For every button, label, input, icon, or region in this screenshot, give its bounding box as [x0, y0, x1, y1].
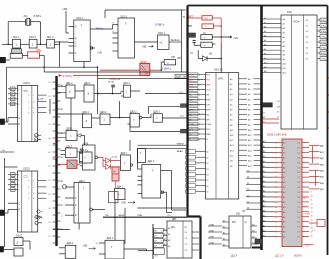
svg-text:А3: А3 — [61, 108, 63, 111]
wire DD2 to DD3 — [95, 28, 113, 30]
svg-text:3: 3 — [18, 190, 19, 192]
svg-text:D4: D4 — [298, 162, 300, 164]
svg-text:А5: А5 — [283, 166, 285, 169]
wire WRITE rail 1 — [138, 144, 187, 146]
svg-text:R: R — [75, 38, 77, 41]
svg-text:D2: D2 — [11, 99, 13, 101]
svg-text:02: 02 — [49, 96, 51, 98]
dark label on bus — [262, 103, 272, 107]
wire oscillator loop — [8, 21, 26, 23]
svg-text:READ: READ — [177, 150, 183, 153]
svg-text:А0: А0 — [61, 84, 63, 87]
svg-text:NMI: NMI — [189, 99, 193, 101]
svg-text:ДС4Б: ДС4Б — [112, 157, 118, 159]
pin bubble DD2.1 output — [90, 28, 95, 30]
svg-text:А4: А4 — [263, 160, 265, 163]
svg-text:A0: A0 — [223, 220, 225, 223]
svg-text:A11: A11 — [264, 66, 267, 69]
pin bubble DD11 out — [92, 209, 105, 211]
svg-text:А9: А9 — [263, 234, 265, 237]
svg-text:ДД4.2: ДД4.2 — [100, 111, 107, 114]
svg-text:D51: D51 — [236, 213, 241, 216]
svg-text:ПС: ПС — [168, 215, 172, 217]
svg-text:2: 2 — [199, 89, 200, 91]
svg-text:Q: Q — [185, 225, 187, 229]
svg-text:16: 16 — [275, 222, 277, 224]
svg-text:+5В: +5В — [142, 45, 147, 49]
wires D51 left labels — [208, 225, 222, 227]
svg-text:БУС: БУС — [206, 129, 211, 131]
svg-text:02: 02 — [49, 166, 51, 168]
svg-text:А0: А0 — [283, 191, 285, 194]
wire into MS column — [124, 248, 147, 250]
svg-text:РСТ1: РСТ1 — [189, 75, 195, 77]
svg-text:W3: W3 — [252, 243, 255, 245]
svg-text:10: 10 — [275, 143, 277, 145]
svg-text:+5В: +5В — [177, 57, 182, 60]
svg-text:A2: A2 — [264, 26, 266, 29]
svg-text:WАТ: WАТ — [206, 84, 211, 87]
svg-text:D5: D5 — [298, 167, 300, 169]
crystal ZQ1 — [25, 19, 27, 26]
wire red box to gates — [22, 55, 27, 57]
wires MS chip left — [163, 229, 167, 231]
svg-text:2: 2 — [199, 124, 200, 126]
svg-text:А6: А6 — [263, 219, 265, 222]
svg-text:ДД1.4: ДД1.4 — [123, 82, 130, 85]
svg-text:БУС: БУС — [189, 129, 194, 131]
svg-text:1: 1 — [18, 180, 19, 182]
svg-text:D0: D0 — [298, 182, 300, 184]
svg-text:2: 2 — [199, 119, 200, 121]
bus: heavy jog at y=217 — [188, 215, 201, 217]
svg-text:A3: A3 — [264, 30, 266, 33]
svg-text:А6: А6 — [61, 132, 63, 135]
svg-text:1WA2: 1WA2 — [209, 236, 214, 239]
svg-text:Д5: Д5 — [247, 202, 249, 204]
svg-text:А6: А6 — [283, 171, 285, 174]
svg-text:А7: А7 — [283, 226, 285, 229]
svg-text:OE: OE — [277, 107, 281, 109]
svg-text:А2: А2 — [164, 238, 166, 241]
svg-text:Д4: Д4 — [247, 195, 249, 197]
svg-text:2: 2 — [199, 134, 200, 136]
svg-text:D0: D0 — [298, 143, 300, 145]
svg-text:А8: А8 — [283, 181, 285, 184]
svg-text:А4: А4 — [263, 210, 265, 213]
wire sheet border y=217 left part — [103, 216, 188, 218]
svg-text:VД: VД — [209, 54, 213, 56]
svg-text:T: T — [81, 24, 83, 28]
circle input symbol — [62, 185, 66, 189]
svg-text:А2: А2 — [283, 151, 285, 154]
svg-text:А9: А9 — [283, 186, 285, 189]
svg-text:ДА: ДА — [213, 43, 217, 46]
wire left edge to counter upper — [0, 121, 8, 123]
svg-text:А9: А9 — [283, 236, 285, 239]
svg-text:17: 17 — [275, 177, 277, 179]
red component K1 gray — [67, 160, 77, 169]
svg-text:4: 4 — [28, 187, 29, 189]
svg-text:D2: D2 — [298, 192, 300, 194]
svg-text:D7: D7 — [298, 177, 300, 179]
svg-text:1WA1: 1WA1 — [209, 230, 214, 233]
svg-text:А8: А8 — [283, 231, 285, 234]
svg-text:08: 08 — [49, 138, 51, 140]
wire row y114 — [57, 113, 84, 115]
diode VD8 — [203, 56, 208, 61]
svg-text:D6: D6 — [298, 212, 300, 214]
svg-text:Д2: Д2 — [247, 183, 249, 185]
wire x=181 vertical — [181, 10, 183, 72]
svg-text:ЗОА: ЗОА — [53, 156, 58, 159]
svg-text:СТ2: СТ2 — [24, 177, 29, 179]
svg-text:А1: А1 — [61, 156, 63, 159]
wire DD11 bottom — [78, 223, 80, 230]
svg-text:+VБ: +VБ — [233, 36, 238, 40]
svg-text:ЗД02 2В: ЗД02 2В — [176, 75, 186, 79]
red wires diodes to gate — [110, 160, 120, 162]
svg-text:12: 12 — [275, 152, 277, 154]
svg-text:А4: А4 — [61, 180, 63, 183]
connector pad left edge top — [0, 57, 6, 63]
svg-text:19: 19 — [311, 232, 313, 234]
svg-text:15: 15 — [275, 167, 277, 169]
svg-text:ЗвкФскв: ЗвкФскв — [171, 39, 181, 42]
net label out — [169, 41, 182, 43]
svg-text:D0: D0 — [298, 222, 300, 224]
svg-text:D1: D1 — [11, 94, 13, 96]
red stub 2 — [263, 122, 279, 124]
wire gate DD1.4 out — [131, 90, 141, 92]
box T y148 — [138, 149, 146, 163]
svg-text:2: 2 — [199, 85, 200, 87]
svg-text:0,3В: 0,3В — [305, 214, 310, 216]
svg-text:10: 10 — [311, 196, 313, 198]
svg-text:13 ВД: 13 ВД — [321, 37, 327, 39]
svg-text:9: 9 — [311, 192, 312, 194]
svg-text:A8: A8 — [264, 52, 266, 55]
bus: right edge frame x=327 — [327, 6, 329, 256]
triangle mark — [77, 150, 83, 154]
red ticks right edge — [328, 77, 329, 79]
svg-text:2: 2 — [199, 99, 200, 101]
wire counter1 left pin rails — [8, 88, 11, 90]
svg-text:5: 5 — [28, 108, 29, 110]
wire left edge mid — [0, 151, 14, 153]
wire left vertical x=6 lower — [4, 158, 6, 247]
svg-text:CLC: CLC — [189, 90, 194, 92]
red tick on bus — [53, 143, 57, 145]
svg-text:1: 1 — [18, 94, 19, 96]
wire horizontal y=67 left section — [6, 66, 97, 68]
svg-text:04: 04 — [49, 110, 51, 112]
circle marks under counter2 — [35, 215, 38, 218]
red wire to diodes — [98, 156, 104, 158]
svg-text:+VБ: +VБ — [97, 51, 102, 55]
svg-text:А5: А5 — [283, 216, 285, 219]
svg-text:ПИБ: ПИБ — [138, 215, 143, 217]
circle-x marks under counter1 — [34, 134, 37, 137]
svg-text:WRITE: WRITE — [177, 144, 185, 146]
svg-text:A12: A12 — [264, 70, 267, 73]
CPU left pins — [189, 74, 206, 76]
svg-text:11: 11 — [275, 147, 277, 149]
capacitor C1 left — [193, 39, 196, 41]
svg-text:WАТ: WАТ — [206, 133, 211, 136]
wire into frame y93 — [145, 93, 186, 95]
wire DD4.1 down to trigger A — [114, 200, 116, 241]
svg-text:14: 14 — [275, 212, 277, 214]
bus: address bus x=261 — [260, 6, 263, 251]
svg-text:Д21,4: Д21,4 — [231, 256, 238, 258]
svg-text:2: 2 — [18, 185, 19, 187]
svg-text:А3: А3 — [283, 206, 285, 209]
svg-text:D1: D1 — [298, 227, 300, 229]
svg-text:1: 1 — [161, 246, 162, 248]
resistor R1 highlighted red — [28, 52, 40, 58]
svg-text:D2: D2 — [298, 232, 300, 234]
svg-text:11: 11 — [275, 197, 277, 199]
svg-text:D0: D0 — [11, 89, 13, 91]
svg-text:D2: D2 — [11, 185, 13, 187]
svg-text:12 ВД: 12 ВД — [321, 31, 327, 33]
svg-text:А1: А1 — [263, 195, 265, 198]
svg-text:ДД9.3: ДД9.3 — [153, 111, 160, 114]
svg-text:0: 0 — [18, 89, 19, 91]
svg-text:14: 14 — [275, 162, 277, 164]
svg-text:Q: Q — [245, 221, 247, 224]
svg-text:5: 5 — [28, 193, 29, 195]
svg-text:02: 02 — [49, 236, 51, 238]
svg-text:А1: А1 — [283, 146, 285, 149]
svg-text:DD1.1: DD1.1 — [13, 36, 20, 39]
svg-text:ДД2.1: ДД2.1 — [82, 111, 89, 114]
svg-text:18: 18 — [275, 182, 277, 184]
svg-text:A2: A2 — [223, 232, 225, 235]
svg-text:DD2.1: DD2.1 — [77, 17, 84, 20]
svg-text:&: & — [69, 90, 71, 94]
svg-text:DD10: DD10 — [24, 82, 31, 85]
wire into frame y131 — [130, 130, 186, 132]
svg-text:А2: А2 — [283, 201, 285, 204]
svg-text:А6: А6 — [283, 221, 285, 224]
svg-text:A7: A7 — [264, 48, 266, 51]
svg-text:D3: D3 — [298, 157, 300, 159]
svg-text:А3: А3 — [263, 155, 265, 158]
MS pin label column — [152, 224, 154, 259]
svg-text:CS: CS — [277, 101, 281, 103]
svg-text:0: 0 — [18, 175, 19, 177]
svg-text:Д22 1,8: Д22 1,8 — [275, 254, 284, 257]
red stub ROM select — [263, 118, 279, 120]
wire under DD11 — [53, 229, 70, 231]
svg-text:18: 18 — [275, 232, 277, 234]
svg-text:A1: A1 — [264, 21, 266, 24]
svg-text:DD20: DD20 — [24, 168, 31, 171]
svg-text:А3: А3 — [263, 205, 265, 208]
svg-text:D2: D2 — [298, 152, 300, 154]
svg-text:Д0: Д0 — [247, 171, 249, 173]
wire WRITE rail 2 — [138, 148, 187, 150]
ROM left address pins — [263, 18, 282, 20]
svg-text:2: 2 — [199, 139, 200, 141]
svg-text:А2: А2 — [263, 200, 265, 203]
svg-text:=1: =1 — [160, 41, 164, 45]
svg-text:D20 2В: D20 2В — [214, 68, 223, 72]
svg-text:4,7МГц: 4,7МГц — [63, 74, 73, 78]
capacitor box X2 — [201, 42, 212, 47]
svg-text:W1: W1 — [252, 231, 255, 233]
svg-text:00: 00 — [49, 152, 51, 154]
svg-text:×: × — [167, 61, 169, 65]
bus: left data bus x=56 — [55, 76, 57, 246]
wire red resistor nets — [189, 17, 203, 19]
svg-text:МS: МS — [232, 221, 236, 224]
svg-text:2: 2 — [18, 99, 19, 101]
svg-text:06: 06 — [49, 124, 51, 126]
RAM D52 body — [282, 139, 302, 247]
svg-text:А7: А7 — [263, 175, 265, 178]
wire diode net — [198, 57, 202, 59]
red net arrow + 4.7MHz label — [59, 74, 62, 77]
svg-text:1: 1 — [161, 231, 162, 233]
svg-text:15: 15 — [311, 216, 313, 218]
svg-text:T: T — [125, 22, 127, 26]
svg-text:М: М — [114, 170, 116, 173]
svg-text:ПВ: ПВ — [188, 25, 192, 28]
svg-text:2: 2 — [199, 114, 200, 116]
svg-text:&: & — [87, 149, 89, 153]
circle symbols x=38 y=210 — [37, 210, 40, 213]
svg-text:А3: А3 — [164, 243, 166, 246]
svg-text:1: 1 — [161, 236, 162, 238]
svg-text:D1: D1 — [298, 147, 300, 149]
svg-text:А7: А7 — [283, 176, 285, 179]
svg-text:D3: D3 — [11, 190, 13, 192]
bus V1 stub ticks left side — [53, 81, 56, 83]
svg-text:ПЕ: ПЕ — [106, 215, 110, 217]
svg-text:А2: А2 — [263, 150, 265, 153]
svg-text:D4: D4 — [298, 202, 300, 204]
svg-text:D7: D7 — [298, 217, 300, 219]
svg-text:14 ВД: 14 ВД — [321, 42, 327, 44]
wire top rail y=10 — [105, 9, 186, 11]
svg-text:CLC: CLC — [206, 90, 211, 92]
svg-text:А0: А0 — [263, 140, 265, 143]
svg-text:13: 13 — [275, 157, 277, 159]
svg-text:D1: D1 — [11, 180, 13, 182]
svg-text:D3: D3 — [298, 197, 300, 199]
svg-text:D6: D6 — [298, 172, 300, 174]
bus: vertical heavy line x=200 bottom — [199, 217, 201, 259]
svg-text:DD1.2: DD1.2 — [29, 36, 36, 39]
svg-text:A1: A1 — [223, 226, 225, 229]
svg-text:00: 00 — [49, 222, 51, 224]
svg-text:T: T — [111, 245, 113, 249]
svg-text:W2: W2 — [252, 237, 255, 239]
svg-text:ДД6.2: ДД6.2 — [67, 242, 74, 245]
diode VD4 red — [106, 164, 111, 169]
svg-text:CPU: CPU — [218, 77, 224, 81]
svg-text:2: 2 — [199, 80, 200, 82]
label ЮШ dark block — [188, 33, 196, 37]
svg-text:NMI: NMI — [206, 99, 210, 101]
svg-text:Д1: Д1 — [247, 177, 249, 179]
svg-text:0,5МГц: 0,5МГц — [155, 23, 165, 27]
svg-text:2: 2 — [199, 94, 200, 96]
svg-text:ДД4.1: ДД4.1 — [107, 237, 114, 240]
svg-text:DD12: DD12 — [16, 235, 23, 238]
svg-text:ДД4.1: ДД4.1 — [84, 82, 91, 85]
svg-text:08: 08 — [49, 208, 51, 210]
svg-text:Д3: Д3 — [247, 189, 249, 191]
svg-text:1: 1 — [49, 145, 50, 147]
bus: vertical heavy line x=187 left edge of CPU sheet — [186, 6, 188, 217]
wire DD2.1 bottom down — [83, 62, 85, 68]
svg-text:20: 20 — [311, 236, 313, 238]
svg-text:A5: A5 — [264, 39, 266, 42]
svg-text:А3: А3 — [283, 156, 285, 159]
red component right bottom — [317, 220, 325, 227]
red verticals right of RAM — [312, 146, 314, 163]
svg-text:R: R — [118, 193, 120, 197]
svg-text:А9: А9 — [263, 185, 265, 188]
svg-text:+5В: +5В — [62, 7, 67, 11]
diode VD3 red — [106, 158, 111, 163]
svg-text:16 ВД: 16 ВД — [321, 53, 327, 55]
svg-text:А7: А7 — [61, 204, 63, 207]
svg-text:17: 17 — [275, 227, 277, 229]
svg-text:&: & — [17, 241, 19, 245]
RAM right wires to edge — [309, 145, 320, 147]
svg-text:A10: A10 — [264, 61, 267, 64]
svg-text:6: 6 — [28, 198, 29, 200]
resistor R11 red — [202, 24, 214, 29]
svg-text:ДД5.1: ДД5.1 — [121, 152, 128, 155]
RAM left pins — [263, 142, 275, 144]
svg-text:2: 2 — [199, 129, 200, 131]
wire gate2 out — [94, 93, 121, 95]
svg-text:ВСМ-6: ВСМ-6 — [294, 254, 302, 257]
wire verticals center — [137, 149, 139, 169]
CPU right pins A0-A15 — [239, 78, 247, 80]
svg-text:12: 12 — [275, 202, 277, 204]
svg-text:19: 19 — [275, 237, 277, 239]
wire red clock line — [73, 75, 140, 77]
svg-text:3,5МГц: 3,5МГц — [162, 67, 172, 71]
svg-text:D5: D5 — [298, 207, 300, 209]
svg-text:1WA3: 1WA3 — [209, 242, 214, 245]
svg-text:D52Б СлФН ЗНБ: D52Б СлФН ЗНБ — [267, 134, 287, 137]
svg-text:D3: D3 — [11, 104, 13, 106]
svg-text:+5В: +5В — [83, 244, 88, 248]
svg-text:04: 04 — [49, 180, 51, 182]
svg-text:А5: А5 — [263, 165, 265, 168]
svg-text:НВ: НВ — [172, 56, 176, 59]
wire left edge to counter lower — [0, 212, 8, 214]
svg-text:75кГц: 75кГц — [96, 27, 104, 31]
svg-text:ПВ: ПВ — [205, 18, 209, 20]
svg-text:A6: A6 — [264, 44, 266, 47]
svg-text:12: 12 — [311, 204, 313, 206]
svg-text:+5В: +5В — [121, 201, 126, 205]
svg-text:ДД9.1: ДД9.1 — [66, 128, 73, 131]
wire black rails under red line — [98, 77, 187, 79]
svg-text:A0: A0 — [264, 17, 266, 20]
wire bottom frame horizontals — [138, 207, 187, 209]
svg-text:D1: D1 — [298, 187, 300, 189]
